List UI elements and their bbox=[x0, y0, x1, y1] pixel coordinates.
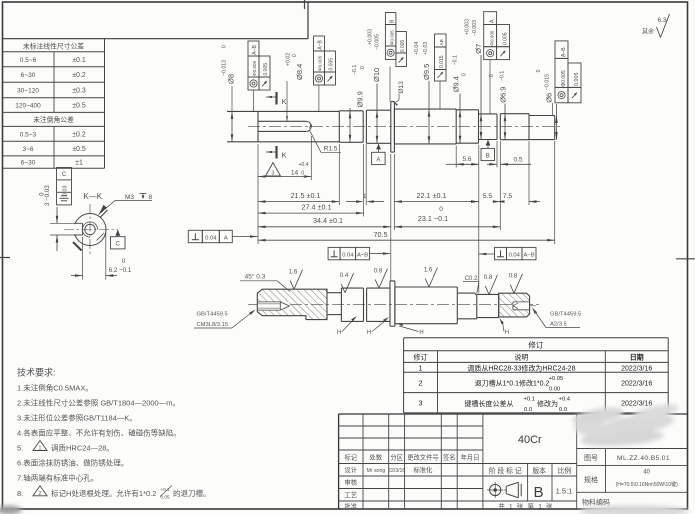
svg-text:C: C bbox=[116, 242, 121, 248]
svg-text:−0.003: −0.003 bbox=[472, 20, 478, 36]
svg-text:+0.05: +0.05 bbox=[549, 376, 564, 382]
svg-text:键槽长度公差从: 键槽长度公差从 bbox=[465, 399, 514, 408]
svg-text:±0.2: ±0.2 bbox=[72, 131, 86, 138]
svg-text:规格: 规格 bbox=[584, 475, 598, 484]
svg-text:0.8: 0.8 bbox=[509, 273, 518, 280]
svg-text:±0.2: ±0.2 bbox=[72, 72, 86, 79]
svg-text:标记H处退根处理。允许有1*0.2: 标记H处退根处理。允许有1*0.2 bbox=[51, 488, 156, 498]
svg-text:A−B: A−B bbox=[357, 252, 368, 258]
svg-text:H: H bbox=[367, 330, 371, 336]
svg-text:3: 3 bbox=[272, 171, 275, 177]
svg-text:其余: 其余 bbox=[642, 28, 654, 36]
svg-text:标准化: 标准化 bbox=[414, 465, 434, 474]
svg-text:5.5: 5.5 bbox=[483, 193, 493, 200]
svg-text:2022/3/16: 2022/3/16 bbox=[621, 365, 652, 372]
svg-text:调质HRC24—28。: 调质HRC24—28。 bbox=[51, 443, 114, 453]
svg-text:0.4: 0.4 bbox=[340, 272, 349, 279]
svg-text:1.6: 1.6 bbox=[424, 267, 433, 274]
svg-text:阶 段 标 记: 阶 段 标 记 bbox=[489, 466, 522, 475]
svg-text:±0.5: ±0.5 bbox=[72, 146, 86, 153]
svg-text:6.2 −0.1: 6.2 −0.1 bbox=[109, 267, 132, 274]
svg-text:Φ0.005: Φ0.005 bbox=[490, 30, 495, 46]
svg-text:M3: M3 bbox=[125, 194, 134, 201]
svg-text:+0.02: +0.02 bbox=[286, 53, 292, 66]
svg-text:0.005: 0.005 bbox=[574, 73, 580, 87]
svg-text:−0.015: −0.015 bbox=[545, 74, 551, 90]
svg-text:2022/3/16: 2022/3/16 bbox=[621, 401, 652, 408]
svg-text:0.005: 0.005 bbox=[502, 32, 508, 45]
svg-text:K: K bbox=[281, 151, 286, 160]
svg-text:Ø8.4: Ø8.4 bbox=[295, 64, 304, 80]
svg-text:0.5~3: 0.5~3 bbox=[20, 131, 37, 138]
svg-text:7.轴两端有标准中心孔。: 7.轴两端有标准中心孔。 bbox=[17, 473, 98, 483]
svg-text:3.未注形位公差参照GB/T1184—K。: 3.未注形位公差参照GB/T1184—K。 bbox=[17, 413, 137, 423]
svg-text:0.005: 0.005 bbox=[263, 63, 269, 76]
svg-text:GB/T4459.5: GB/T4459.5 bbox=[197, 312, 228, 318]
svg-text:Ø9.5: Ø9.5 bbox=[422, 64, 431, 80]
svg-text:2022/3/16: 2022/3/16 bbox=[621, 381, 652, 388]
svg-text:1.6: 1.6 bbox=[289, 269, 298, 276]
svg-text:C: C bbox=[62, 172, 67, 178]
svg-text:Mr song: Mr song bbox=[366, 468, 385, 474]
svg-text:0.015: 0.015 bbox=[439, 55, 445, 68]
svg-text:±0.1: ±0.1 bbox=[72, 57, 86, 64]
svg-text:(H=70.5\0.16Nm\50W\10键): (H=70.5\0.16Nm\50W\10键) bbox=[616, 481, 678, 488]
svg-text:−0.1: −0.1 bbox=[352, 65, 358, 75]
svg-text:调质从HRC28-33修改为HRC24-28: 调质从HRC28-33修改为HRC24-28 bbox=[467, 363, 575, 372]
svg-text:3~6: 3~6 bbox=[22, 146, 33, 153]
svg-text:0: 0 bbox=[292, 54, 298, 57]
svg-text:+0.03: +0.03 bbox=[423, 42, 429, 55]
svg-text:70.5: 70.5 bbox=[374, 230, 388, 239]
svg-text:2: 2 bbox=[418, 379, 422, 388]
svg-text:修改为: 修改为 bbox=[537, 399, 558, 408]
svg-text:A: A bbox=[224, 235, 228, 241]
svg-text:批准: 批准 bbox=[345, 502, 358, 511]
svg-text:修订: 修订 bbox=[414, 353, 428, 362]
svg-text:Ø7: Ø7 bbox=[474, 44, 483, 54]
svg-text:GB/T4459.5: GB/T4459.5 bbox=[550, 312, 581, 318]
svg-text:0: 0 bbox=[122, 258, 126, 265]
svg-text:0.05: 0.05 bbox=[161, 495, 170, 500]
svg-text:27.4 ±0.1: 27.4 ±0.1 bbox=[302, 203, 332, 212]
svg-text:+0.4: +0.4 bbox=[559, 396, 571, 402]
svg-text:Φ0.005: Φ0.005 bbox=[390, 30, 395, 46]
svg-text:4.各表面应平整、不允许有划伤、磕碰伤等缺陷。: 4.各表面应平整、不允许有划伤、磕碰伤等缺陷。 bbox=[17, 428, 181, 438]
svg-text:−0.1: −0.1 bbox=[500, 71, 506, 81]
svg-text:6~30: 6~30 bbox=[21, 72, 36, 79]
svg-text:K—K: K—K bbox=[83, 192, 102, 201]
svg-text:0.04: 0.04 bbox=[509, 252, 521, 258]
svg-text:AB: AB bbox=[439, 39, 444, 45]
svg-text:1.5:1: 1.5:1 bbox=[556, 487, 573, 496]
svg-text:14: 14 bbox=[291, 170, 299, 177]
svg-text:0.0: 0.0 bbox=[559, 407, 567, 413]
svg-text:1: 1 bbox=[39, 446, 42, 452]
svg-text:30~120: 30~120 bbox=[17, 88, 39, 95]
svg-text:+0.1: +0.1 bbox=[524, 396, 535, 402]
svg-text:图号: 图号 bbox=[584, 454, 598, 462]
svg-text:1: 1 bbox=[419, 365, 423, 372]
svg-text:0.8: 0.8 bbox=[484, 274, 493, 281]
svg-text:分区: 分区 bbox=[390, 453, 403, 462]
svg-text:+0.4: +0.4 bbox=[299, 162, 309, 168]
svg-text:ML.ZZ.40.B5.01: ML.ZZ.40.B5.01 bbox=[617, 455, 670, 462]
svg-text:A−B: A−B bbox=[252, 44, 258, 54]
svg-text:0: 0 bbox=[536, 69, 542, 72]
svg-text:Ø9.9: Ø9.9 bbox=[356, 91, 365, 107]
svg-text:CM3L8/3.15: CM3L8/3.15 bbox=[197, 322, 229, 328]
svg-text:±0.5: ±0.5 bbox=[72, 103, 86, 110]
svg-text:A−B: A−B bbox=[523, 252, 534, 258]
svg-text:比例: 比例 bbox=[558, 466, 572, 475]
svg-text:未标注线性尺寸公差: 未标注线性尺寸公差 bbox=[23, 42, 84, 51]
svg-text:物料编码: 物料编码 bbox=[582, 498, 610, 507]
svg-text:处数: 处数 bbox=[370, 453, 383, 462]
svg-text:设计: 设计 bbox=[345, 465, 358, 474]
svg-text:H: H bbox=[505, 330, 509, 336]
svg-text:0.04: 0.04 bbox=[205, 235, 217, 241]
svg-text:45° 0.3: 45° 0.3 bbox=[245, 273, 266, 281]
svg-text:审核: 审核 bbox=[345, 478, 358, 487]
svg-text:0: 0 bbox=[489, 74, 495, 77]
svg-text:0.005: 0.005 bbox=[329, 58, 335, 71]
svg-text:B: B bbox=[486, 154, 490, 160]
svg-text:0: 0 bbox=[39, 192, 46, 196]
svg-text:23.1 −0.1: 23.1 −0.1 bbox=[418, 214, 448, 223]
svg-text:签名: 签名 bbox=[443, 453, 456, 462]
svg-text:标记: 标记 bbox=[345, 453, 358, 462]
svg-text:21.5 ±0.1: 21.5 ±0.1 bbox=[291, 191, 321, 200]
svg-text:更改文件号: 更改文件号 bbox=[407, 453, 438, 462]
svg-text:C0.2: C0.2 bbox=[464, 275, 478, 282]
svg-text:Ø6.9: Ø6.9 bbox=[499, 87, 508, 103]
svg-text:+0.003: +0.003 bbox=[368, 29, 374, 45]
svg-text:Φ0.005: Φ0.005 bbox=[318, 55, 323, 71]
svg-text:±1: ±1 bbox=[75, 160, 83, 167]
svg-text:技术要求:: 技术要求: bbox=[17, 367, 56, 378]
svg-text:0.005: 0.005 bbox=[400, 40, 406, 53]
svg-text:年月日: 年月日 bbox=[461, 453, 480, 462]
svg-text:40Cr: 40Cr bbox=[518, 434, 542, 446]
svg-text:±0.3: ±0.3 bbox=[72, 88, 86, 95]
svg-text:共 1 张 第 1 张: 共 1 张 第 1 张 bbox=[498, 502, 553, 511]
svg-text:工艺: 工艺 bbox=[345, 491, 358, 499]
svg-text:1: 1 bbox=[363, 193, 367, 200]
svg-text:A: A bbox=[376, 158, 380, 164]
svg-text:6.表面涂抹防锈油、做防锈处理。: 6.表面涂抹防锈油、做防锈处理。 bbox=[17, 458, 128, 468]
svg-text:0.5: 0.5 bbox=[513, 157, 522, 164]
svg-text:34.4 ±0.1: 34.4 ±0.1 bbox=[313, 216, 343, 225]
svg-text:−0.1: −0.1 bbox=[453, 55, 459, 65]
svg-text:A−B: A−B bbox=[318, 39, 324, 49]
svg-text:Ø13: Ø13 bbox=[398, 81, 405, 94]
svg-text:0: 0 bbox=[439, 206, 443, 213]
svg-text:版本: 版本 bbox=[532, 466, 546, 475]
svg-text:H: H bbox=[337, 330, 341, 336]
svg-text:0.8: 0.8 bbox=[374, 268, 383, 275]
svg-text:0.0: 0.0 bbox=[524, 407, 532, 413]
svg-text:+0.003: +0.003 bbox=[465, 19, 471, 35]
svg-text:0: 0 bbox=[462, 73, 468, 76]
svg-text:1.未注倒角C0.5MAX。: 1.未注倒角C0.5MAX。 bbox=[17, 383, 93, 393]
svg-text:Ø6: Ø6 bbox=[545, 93, 554, 103]
svg-text:22/3/16: 22/3/16 bbox=[388, 468, 405, 474]
svg-text:2.未注线性尺寸公差参照 GB/T1804—2000—m。: 2.未注线性尺寸公差参照 GB/T1804—2000—m。 bbox=[17, 398, 180, 408]
svg-text:的退刀槽。: 的退刀槽。 bbox=[173, 488, 211, 498]
svg-text:0.03: 0.03 bbox=[63, 186, 69, 197]
svg-text:−0.005: −0.005 bbox=[375, 34, 381, 50]
svg-text:0: 0 bbox=[360, 66, 366, 69]
svg-text:A2/3.5: A2/3.5 bbox=[550, 322, 567, 328]
svg-text:修订: 修订 bbox=[528, 340, 543, 350]
svg-text:120~400: 120~400 bbox=[15, 103, 41, 110]
svg-text:说明: 说明 bbox=[514, 353, 528, 362]
svg-text:−0.013: −0.013 bbox=[222, 60, 228, 76]
svg-text:0.04: 0.04 bbox=[342, 252, 354, 258]
svg-text:退刀槽从1*0.1修改1*0.2: 退刀槽从1*0.1修改1*0.2 bbox=[475, 379, 550, 388]
svg-text:5.: 5. bbox=[17, 444, 23, 453]
svg-text:日期: 日期 bbox=[630, 353, 644, 362]
svg-text:6.3: 6.3 bbox=[657, 17, 666, 24]
svg-text:0.5~6: 0.5~6 bbox=[20, 57, 37, 64]
svg-text:Φ0.005: Φ0.005 bbox=[561, 70, 567, 87]
svg-text:5.6: 5.6 bbox=[462, 156, 471, 163]
svg-text:6~30: 6~30 bbox=[21, 160, 36, 167]
svg-text:K: K bbox=[281, 97, 286, 106]
svg-text:22.1 ±0.1: 22.1 ±0.1 bbox=[417, 191, 447, 200]
svg-text:8.: 8. bbox=[17, 489, 23, 498]
svg-text:A−B: A−B bbox=[561, 47, 567, 57]
svg-text:8: 8 bbox=[149, 194, 153, 201]
svg-text:H: H bbox=[419, 330, 423, 336]
svg-text:Ø8: Ø8 bbox=[227, 74, 236, 84]
svg-text:Ø9.4: Ø9.4 bbox=[452, 76, 461, 92]
svg-text:Φ0.005: Φ0.005 bbox=[252, 60, 257, 76]
svg-text:未注倒角公差: 未注倒角公差 bbox=[33, 115, 74, 124]
svg-text:+0.04: +0.04 bbox=[414, 42, 420, 55]
svg-text:0.00: 0.00 bbox=[549, 387, 560, 393]
svg-text:3: 3 bbox=[418, 399, 422, 408]
svg-text:2: 2 bbox=[39, 491, 42, 497]
svg-text:0: 0 bbox=[222, 45, 228, 48]
svg-text:7.5: 7.5 bbox=[503, 193, 513, 200]
svg-text:B: B bbox=[533, 484, 543, 501]
svg-text:R1.5: R1.5 bbox=[324, 145, 338, 152]
svg-text:Ø10: Ø10 bbox=[372, 68, 381, 82]
svg-text:40: 40 bbox=[643, 470, 650, 476]
